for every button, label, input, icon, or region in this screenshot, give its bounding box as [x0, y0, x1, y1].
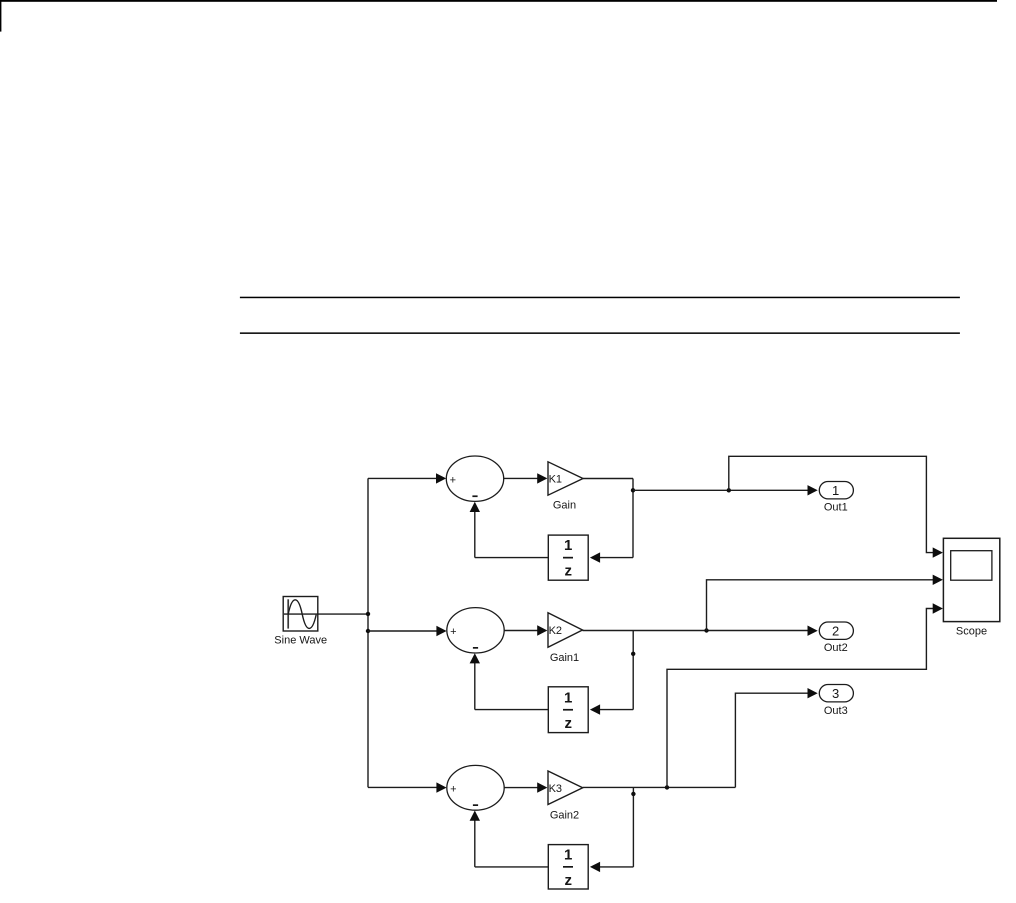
sum S3 [447, 765, 504, 810]
wire row3 to scope [667, 609, 934, 788]
svg-text:Out3: Out3 [824, 705, 848, 717]
svg-text:Gain2: Gain2 [550, 809, 579, 821]
wire sine output [318, 613, 369, 615]
arrow into scope input1 [933, 547, 943, 557]
svg-text:z: z [564, 872, 572, 889]
arrow into sum2 bottom [470, 653, 480, 663]
wire bypass row1 to scope [729, 456, 934, 552]
outport Out1 [819, 482, 853, 499]
wire gain2 down segment [632, 631, 634, 710]
arrow into sum3 [436, 782, 446, 792]
page left tick [0, 0, 1, 32]
arrow into gain K1 [537, 473, 547, 483]
arrow into unit delay Z1 [590, 552, 600, 562]
node bypass1 junction [727, 488, 731, 492]
arrow into unit delay Z2 [590, 704, 600, 714]
gain K2 triangle [548, 613, 583, 648]
scope block [943, 538, 999, 621]
svg-text:Out2: Out2 [824, 642, 848, 654]
wire delay3 output [475, 866, 549, 868]
arrow into gain K3 [537, 782, 547, 792]
arrow into Out1 [808, 485, 818, 495]
wire gain3 down segment [632, 787, 634, 867]
wire row2 to scope [707, 580, 934, 631]
arrow into scope input3 [933, 603, 943, 613]
unit delay Z1 [548, 535, 588, 580]
wire delay1 up to sum1 [474, 511, 476, 558]
node sine-trunk junction [366, 612, 370, 616]
arrow into sum1 [436, 473, 446, 483]
sine icon curve [288, 600, 316, 629]
unit delay Z2 [548, 687, 588, 733]
wire gain2 to Out2 [583, 630, 808, 632]
svg-text:+: + [450, 626, 456, 638]
scope screen [951, 551, 992, 581]
svg-text:1: 1 [832, 483, 839, 498]
wire sum1 to gain1 [504, 477, 539, 479]
wire delay2 output [475, 709, 549, 711]
arrow into Out3 [808, 688, 818, 698]
wire delay3 up to sum3 [474, 820, 476, 867]
wire trunk vertical [367, 478, 369, 787]
arrow into unit delay Z3 [590, 862, 600, 872]
wire feedback1 from junction to delay [600, 557, 633, 559]
svg-text:1: 1 [564, 846, 572, 863]
wire feedback2 from junction to delay [600, 709, 634, 711]
sum S1 [446, 456, 503, 501]
svg-text:Gain: Gain [553, 499, 576, 511]
node feedback3 dot [631, 792, 635, 796]
wire gain1 apex [583, 478, 633, 480]
arrow into Out2 [808, 626, 818, 636]
node scope2 branch junction [704, 628, 708, 632]
wire trunk to sum1 [368, 477, 437, 479]
sum S3 minus sign [473, 804, 478, 806]
wire delay2 up to sum2 [474, 662, 476, 709]
sum S2 [447, 608, 504, 653]
sine icon vertical axis [287, 599, 289, 628]
svg-text:K2: K2 [549, 625, 562, 637]
gain K1 triangle [548, 462, 583, 495]
arrow into sum3 bottom [470, 811, 480, 821]
wire feedback3 from junction to delay [600, 866, 634, 868]
page top border [0, 0, 997, 2]
wire delay1 output [475, 557, 549, 559]
node gain1 branch junction [631, 488, 635, 492]
svg-text:Sine Wave: Sine Wave [274, 635, 327, 647]
wire trunk to sum2 [368, 630, 437, 632]
arrow into sum1 bottom [470, 502, 480, 512]
Z2 fraction bar [563, 709, 573, 711]
arrow into gain K2 [537, 625, 547, 635]
svg-text:K3: K3 [549, 783, 562, 795]
gain K3 triangle [548, 771, 583, 805]
svg-text:1: 1 [564, 689, 572, 706]
svg-text:Gain1: Gain1 [550, 652, 579, 664]
node scope3 branch junction [665, 785, 669, 789]
wire sum2 to gain2 [504, 630, 538, 632]
arrow into scope input2 [933, 575, 943, 585]
svg-text:+: + [450, 474, 456, 486]
svg-text:+: + [450, 783, 456, 795]
node feedback2 dot [631, 652, 635, 656]
svg-text:K1: K1 [549, 474, 562, 486]
wire up to Out3 [735, 693, 807, 787]
sum S1 minus sign [472, 495, 477, 497]
wire gain3 output [583, 786, 736, 788]
Z3 fraction bar [563, 866, 573, 868]
wire sum3 to gain3 [504, 787, 538, 789]
svg-text:2: 2 [832, 623, 839, 638]
header rule top [240, 297, 960, 299]
node trunk row2 junction [366, 629, 370, 633]
svg-text:z: z [564, 715, 572, 732]
wire to Out1 [633, 489, 808, 491]
outport Out2 [819, 622, 853, 639]
svg-text:z: z [564, 563, 572, 580]
sine icon horizontal axis [284, 613, 318, 615]
svg-text:1: 1 [564, 537, 572, 554]
wire trunk to sum3 [368, 786, 437, 788]
wire gain1 down segment [632, 479, 634, 558]
unit delay Z3 [548, 845, 588, 889]
sine wave source block [283, 597, 318, 632]
svg-text:3: 3 [832, 686, 839, 701]
arrow into sum2 [436, 626, 446, 636]
svg-text:Out1: Out1 [824, 501, 848, 513]
header rule bottom [240, 332, 960, 334]
outport Out3 [819, 685, 853, 702]
sum S2 minus sign [473, 647, 478, 649]
svg-text:Scope: Scope [956, 625, 987, 637]
Z1 fraction bar [563, 557, 573, 559]
